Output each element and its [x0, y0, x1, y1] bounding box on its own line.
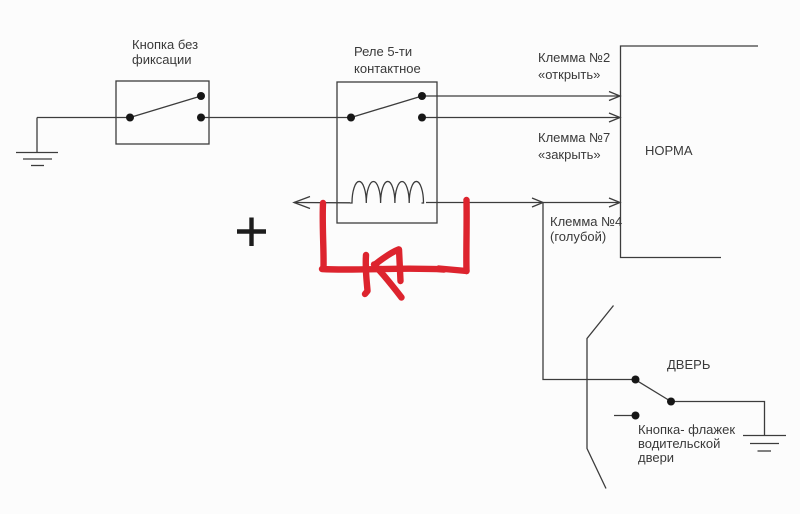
svg-text:Клемма №2: Клемма №2 — [538, 50, 610, 65]
red wire bottom — [322, 265, 444, 272]
node: S1 out — [197, 114, 205, 122]
node: K1 common — [347, 114, 355, 122]
switch S1 box — [116, 81, 209, 144]
svg-text:Реле 5-ти: Реле 5-ти — [354, 44, 412, 59]
contact stub — [614, 415, 633, 417]
red suppression diode sketch — [322, 200, 467, 298]
diode D1 cathode bar — [365, 255, 368, 294]
arrowhead mid — [532, 198, 543, 207]
wire — [37, 117, 130, 119]
NORMA box — [621, 46, 759, 258]
red wire left vertical — [320, 203, 327, 268]
red wire right vertical — [463, 200, 470, 271]
svg-text:фиксации: фиксации — [132, 52, 192, 67]
node: K1 NO — [418, 92, 426, 100]
wire to terminal 7 — [422, 117, 619, 119]
plus symbol — [237, 218, 266, 247]
arrowhead terminal 7 — [609, 113, 620, 122]
wire down to door switch — [543, 203, 635, 380]
coil K1 — [350, 181, 423, 203]
relay K1 lever — [351, 96, 422, 118]
node: S1 NO — [197, 92, 205, 100]
node: S1 common — [126, 114, 134, 122]
wire switch to ground — [671, 402, 765, 436]
diode D1 triangle right side — [399, 250, 401, 282]
switch S1 lever — [130, 96, 201, 118]
svg-text:(голубой): (голубой) — [550, 229, 606, 244]
svg-text:НОРМА: НОРМА — [645, 143, 693, 158]
svg-text:ДВЕРЬ: ДВЕРЬ — [667, 357, 710, 372]
arrowhead terminal 2 — [609, 92, 620, 101]
node: K1 out — [418, 114, 426, 122]
wire — [201, 117, 351, 119]
door edge — [587, 306, 614, 489]
arrowhead terminal 4 — [609, 198, 620, 207]
svg-text:«закрыть»: «закрыть» — [538, 147, 601, 162]
coil line left — [294, 202, 350, 204]
svg-text:«открыть»: «открыть» — [538, 67, 600, 82]
wire coil to node — [426, 202, 619, 204]
diode D1 triangle top edge — [375, 250, 399, 265]
node: door switch contact — [667, 398, 675, 406]
svg-text:контактное: контактное — [354, 61, 421, 76]
ground — [16, 118, 58, 166]
node: flag contact — [632, 412, 640, 420]
ground right — [743, 436, 786, 452]
diode D1 triangle bottom edge — [374, 265, 402, 298]
svg-text:Кнопка без: Кнопка без — [132, 37, 198, 52]
svg-text:Клемма №7: Клемма №7 — [538, 130, 610, 145]
relay K1 box — [337, 82, 437, 223]
node dots — [126, 92, 675, 420]
arrow left of coil — [294, 197, 310, 209]
node: door switch common — [632, 376, 640, 384]
svg-text:Кнопка- флажек: Кнопка- флажек — [638, 422, 735, 437]
svg-text:двери: двери — [638, 450, 674, 465]
wire to terminal 2 — [422, 95, 619, 97]
svg-text:водительской: водительской — [638, 436, 720, 451]
door switch lever — [635, 380, 671, 402]
red wire right hook — [439, 269, 467, 272]
svg-text:Клемма №4: Клемма №4 — [550, 214, 622, 229]
